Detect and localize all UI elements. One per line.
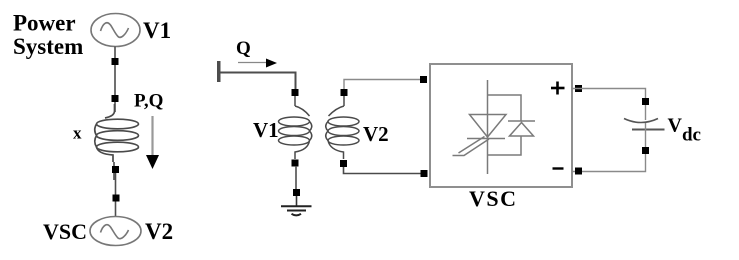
- svg-text:V1: V1: [253, 118, 279, 142]
- wire secondary top to VSC box: [344, 80, 423, 90]
- svg-text:Q: Q: [236, 38, 251, 59]
- diode triangle: [510, 123, 534, 137]
- svg-text:V2: V2: [363, 122, 389, 146]
- wire from V1 to inductor: [114, 47, 116, 113]
- node cap top: [642, 98, 649, 105]
- node box left top: [420, 76, 427, 83]
- top branch to diode: [488, 95, 522, 121]
- thyristor cathode bar: [467, 138, 505, 140]
- wire primary to ground: [295, 166, 297, 190]
- VSC box: [430, 64, 572, 187]
- wire inductor to V2: [113, 162, 115, 180]
- arrow P,Q (downward): [151, 116, 153, 155]
- diode cathode bar: [508, 120, 535, 122]
- wire terminal to transformer primary: [219, 73, 296, 91]
- node: [112, 58, 119, 65]
- wire cap bottom: [572, 130, 646, 172]
- node box left bottom: [421, 170, 428, 177]
- node primary top: [292, 89, 299, 96]
- GTO thyristor + diode inside box: [453, 80, 536, 174]
- svg-text:V1: V1: [143, 18, 171, 43]
- gate lines: [453, 139, 490, 156]
- node: [113, 195, 120, 202]
- inductor X (coil): [95, 104, 139, 162]
- wire between plates: [645, 123, 647, 130]
- wire box to capacitor top: [572, 89, 646, 121]
- svg-text:x: x: [73, 124, 82, 143]
- node cap bottom: [642, 147, 649, 154]
- node: [112, 95, 119, 102]
- thyristor triangle: [470, 115, 507, 138]
- source V2 (AC source circle bottom-left): [90, 217, 141, 246]
- node box right bottom: [575, 168, 582, 175]
- svg-text:VSC: VSC: [469, 186, 518, 211]
- node secondary top: [341, 89, 348, 96]
- node secondary bottom: [340, 160, 347, 167]
- terminal bar (Q tap): [217, 61, 221, 82]
- wire secondary bottom to VSC box: [344, 167, 425, 174]
- center vertical line: [487, 80, 489, 174]
- node box right top: [575, 85, 582, 92]
- svg-text:V2: V2: [145, 219, 173, 244]
- transformer primary winding V1: [279, 96, 312, 159]
- ground: [281, 206, 312, 215]
- svg-text:VSC: VSC: [43, 219, 87, 244]
- svg-text:System: System: [13, 34, 83, 59]
- node ground: [293, 189, 300, 196]
- source V1 (AC source circle top-left): [91, 14, 140, 47]
- svg-text:Vdc: Vdc: [668, 115, 701, 146]
- capacitor Vdc curved plate: [624, 119, 658, 123]
- node primary bottom: [292, 160, 299, 167]
- node: [112, 166, 119, 173]
- capacitor Vdc straight plate: [632, 129, 665, 131]
- minus sign: [553, 167, 564, 169]
- svg-text:Power: Power: [13, 11, 76, 36]
- diode bottom connection: [488, 136, 522, 155]
- plus sign: [551, 82, 565, 95]
- arrow Q (rightward): [238, 62, 267, 64]
- svg-text:P,Q: P,Q: [134, 91, 163, 112]
- transformer secondary winding V2: [326, 96, 359, 159]
